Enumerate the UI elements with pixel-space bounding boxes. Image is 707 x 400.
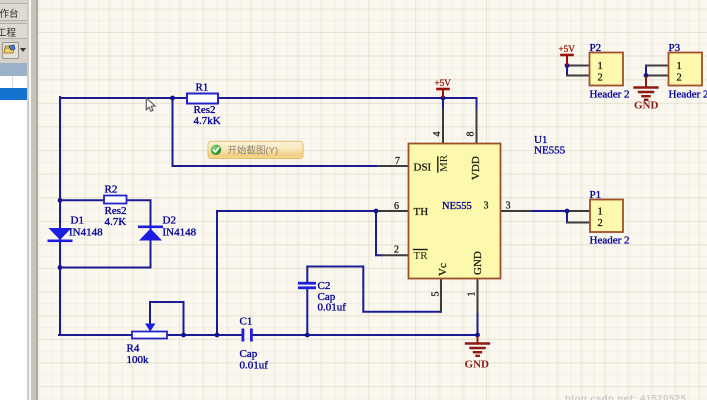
svg-text:P1: P1 [590, 189, 602, 201]
svg-text:R4: R4 [127, 343, 140, 355]
svg-text:+5V: +5V [435, 78, 452, 88]
svg-text:GND: GND [472, 251, 484, 275]
svg-text:0.01uf: 0.01uf [318, 302, 347, 314]
svg-text:IN4148: IN4148 [69, 227, 103, 239]
svg-text:VDD: VDD [470, 156, 482, 180]
wire R2 right to D2 vertical and bottom return [60, 200, 151, 267]
diode D2 [138, 226, 163, 241]
wire top rail from left loop to VDD corner [60, 98, 477, 110]
svg-text:2: 2 [598, 218, 603, 229]
svg-text:Header 2: Header 2 [669, 89, 707, 101]
pin stubs P1 [567, 211, 590, 223]
svg-text:TR: TR [414, 250, 429, 262]
panel splitter [27, 0, 38, 400]
wire R2 left branch [60, 199, 104, 201]
svg-text:blog.csdn.net: 41520525: blog.csdn.net: 41520525 [565, 394, 687, 400]
svg-text:100k: 100k [127, 354, 150, 366]
power +5V at P2 [562, 55, 573, 65]
toolbar button with folder icon [2, 42, 19, 59]
svg-text:0.01uf: 0.01uf [240, 360, 269, 372]
wire left vertical through D1 [59, 97, 61, 335]
svg-text:2: 2 [598, 73, 603, 84]
ground symbol near P3 [635, 77, 658, 100]
diode D1 [48, 228, 73, 242]
wire R4 wiper loop [150, 302, 184, 335]
wire pin3 to P1 [529, 211, 567, 223]
power +5V at top rail [438, 89, 449, 97]
svg-text:Header 2: Header 2 [590, 235, 630, 247]
svg-text:NE555: NE555 [534, 145, 566, 157]
wire pin1 GND drop [477, 310, 479, 335]
wire DSI net from top rail to pin 7 [173, 98, 381, 166]
wire +5V drop to pin4 junction [442, 98, 444, 110]
svg-text:1: 1 [467, 292, 478, 297]
connector P2 [590, 53, 624, 86]
svg-text:3: 3 [506, 201, 511, 212]
U1 pin name MR rotated with overline [438, 154, 450, 172]
pin stubs P3 [646, 66, 669, 76]
svg-text:R1: R1 [196, 82, 209, 94]
svg-text:4.7K: 4.7K [105, 216, 127, 228]
svg-text:Header 2: Header 2 [590, 89, 630, 101]
svg-text:4.7kK: 4.7kK [194, 115, 221, 127]
resistor R2 [104, 196, 127, 204]
panel header 工程 [0, 23, 29, 39]
svg-text:1: 1 [598, 61, 603, 72]
pin stubs U1 left pins 7 6 2 [378, 166, 408, 255]
svg-text:R2: R2 [105, 184, 118, 196]
svg-text:开始截图(Y): 开始截图(Y) [228, 145, 279, 157]
capacitor C2 [298, 282, 316, 289]
U1 pin name TR with overline [414, 250, 429, 263]
svg-text:C1: C1 [240, 316, 253, 328]
svg-text:+5V: +5V [559, 44, 576, 54]
capacitor C1 [242, 329, 253, 342]
wire C2 bottom to bottom rail [306, 288, 308, 335]
svg-text:P3: P3 [669, 42, 681, 54]
pin stubs P2 [567, 66, 590, 76]
svg-text:P2: P2 [590, 42, 602, 54]
svg-text:NE555: NE555 [442, 201, 472, 212]
left UI panel [0, 0, 37, 400]
svg-text:1: 1 [598, 207, 603, 218]
pin stubs U1 bottom pins 5 1 [441, 278, 478, 312]
svg-text:2: 2 [394, 245, 399, 256]
ground symbol bottom [466, 337, 489, 356]
op-amp U1 NE555 body [409, 144, 501, 279]
wire TR branch from TH junction [376, 211, 382, 255]
svg-text:6: 6 [394, 201, 399, 212]
svg-text:7: 7 [395, 156, 400, 167]
svg-text:MR: MR [438, 154, 450, 172]
svg-text:TH: TH [414, 206, 429, 218]
svg-text:Cap: Cap [240, 348, 258, 360]
svg-text:8: 8 [466, 132, 477, 137]
svg-text:GND: GND [465, 359, 490, 371]
wire TH vertical down to bottom rail [216, 211, 218, 335]
projects list selected row [0, 88, 27, 100]
connector P1 [590, 200, 623, 233]
svg-text:D2: D2 [163, 215, 176, 227]
pin stubs U1 top pins 4 8 [443, 110, 477, 145]
wire bottom rail right of C1 [253, 334, 478, 336]
svg-text:2: 2 [677, 73, 682, 84]
svg-text:D1: D1 [71, 215, 84, 227]
wire bottom rail left of C1 [59, 334, 243, 336]
projects list empty area [0, 100, 27, 400]
resistor R1 [187, 94, 218, 104]
projects list header row [0, 63, 27, 77]
wire C2 top to pin5 [307, 267, 440, 312]
toolbar dropdown arrow [18, 42, 28, 57]
wire TH net horizontal [217, 210, 376, 212]
potentiometer R4 [132, 324, 167, 339]
svg-text:1: 1 [677, 61, 682, 72]
svg-text:3: 3 [484, 201, 489, 212]
panel header 工作台 [0, 3, 29, 21]
connector P3 [669, 53, 703, 86]
mouse cursor [146, 98, 155, 111]
pin stub U1 pin 3 [501, 210, 531, 212]
wire P2 vertical link [566, 66, 568, 76]
svg-text:DSI: DSI [414, 162, 432, 174]
svg-text:GND: GND [634, 100, 659, 112]
tooltip bubble [208, 141, 303, 158]
projects list white row [0, 76, 27, 90]
svg-text:4: 4 [432, 132, 443, 137]
wire P3 vertical link [645, 66, 647, 76]
svg-text:Vc: Vc [437, 263, 449, 276]
svg-text:IN4148: IN4148 [163, 227, 197, 239]
svg-text:5: 5 [431, 292, 442, 297]
